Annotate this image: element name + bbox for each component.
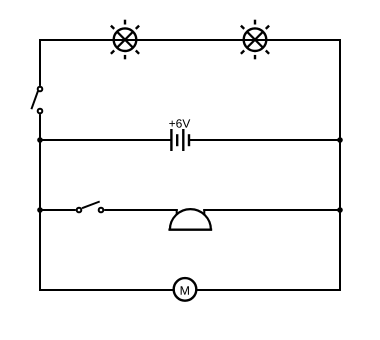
motor M1 <box>174 278 197 301</box>
wire right rail <box>339 39 341 291</box>
lamp L1 <box>111 20 139 60</box>
switch S1 (open, on left rail) <box>31 87 42 114</box>
lamp L2 <box>241 20 269 60</box>
wire battery branch right <box>189 139 340 141</box>
label +6V <box>169 119 190 127</box>
wire top (node: lamps branch) <box>39 39 341 41</box>
junction node left-buzzer <box>37 207 43 213</box>
wire bottom (motor branch) <box>39 289 341 291</box>
switch S2 (open, on buzzer branch) <box>77 202 104 213</box>
wire buzzer branch left (rail to switch S2) <box>40 209 76 211</box>
junction node right-battery <box>337 137 343 143</box>
junction node right-buzzer <box>337 207 343 213</box>
wire battery branch left <box>40 139 171 141</box>
wire buzzer branch middle (switch S2 to buzzer) <box>104 209 178 211</box>
junction node left-battery <box>37 137 43 143</box>
wire left rail upper (top corner to switch S1) <box>39 39 41 86</box>
wire buzzer branch right (buzzer to rail) <box>203 209 340 211</box>
buzzer BZ1 <box>168 209 212 230</box>
wire left rail lower (switch S1 to bottom corner) <box>39 114 41 291</box>
battery B1 <box>171 129 189 151</box>
